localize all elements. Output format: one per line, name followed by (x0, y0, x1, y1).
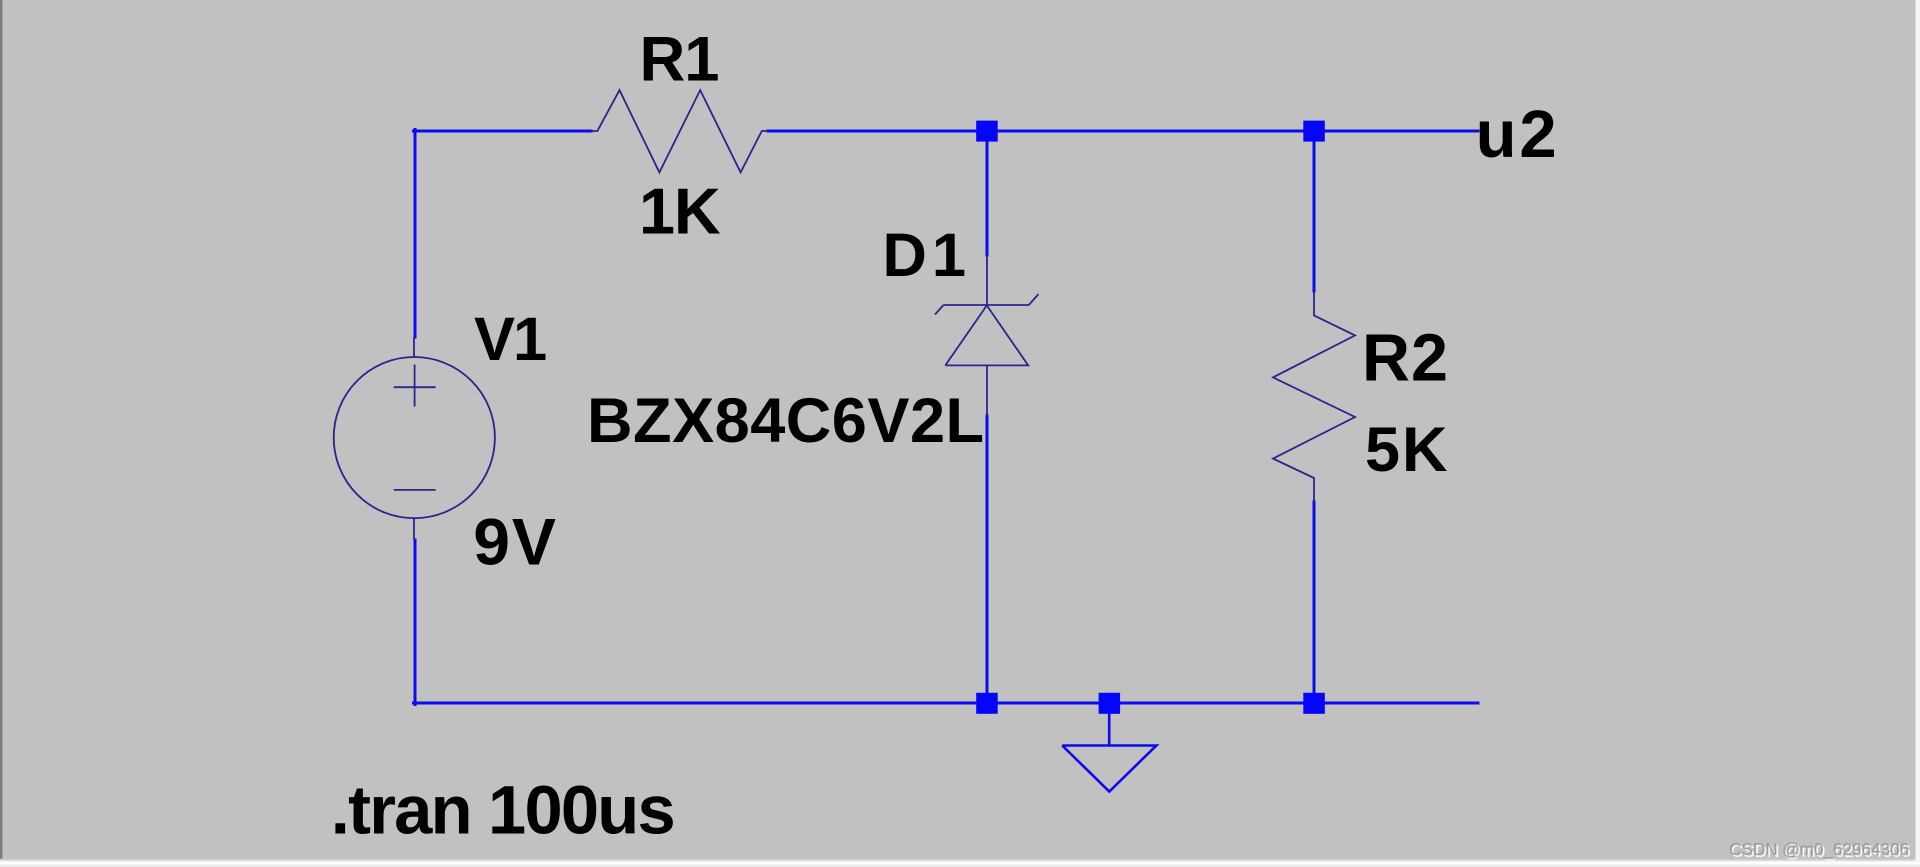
window left edge (0, 0, 3, 861)
wire D1 bottom vertical (986, 416, 989, 703)
window bottom edge shade (0, 859, 1920, 861)
watermark CSDN (1729, 840, 1911, 861)
ground (1062, 703, 1156, 792)
wire R2 top vertical (1313, 131, 1316, 291)
resistor R2 (1273, 291, 1355, 502)
svg-text:5K: 5K (1365, 415, 1450, 485)
svg-text:u2: u2 (1476, 97, 1560, 172)
diode D1 (zener BZX84C6V2L) (935, 255, 1039, 416)
node junction at ground (1099, 693, 1121, 714)
svg-text:1K: 1K (639, 174, 721, 247)
svg-text:V1: V1 (474, 305, 546, 374)
svg-text:R2: R2 (1362, 322, 1449, 396)
svg-text:R1: R1 (640, 25, 719, 95)
svg-text:.tran 100us: .tran 100us (331, 771, 674, 848)
wire left vertical lower (V1 minus pin down to bottom rail) (414, 540, 417, 705)
window right white edge (1916, 0, 1920, 861)
node junction at R1/D1 top (976, 121, 998, 142)
wire top-right horizontal (R1 right to u2 label end) (768, 130, 1478, 133)
wire top-left horizontal (V1 top to R1 left) (414, 130, 592, 133)
svg-text:BZX84C6V2L: BZX84C6V2L (587, 386, 985, 456)
wire left vertical (top corner down to V1 plus pin) (414, 130, 417, 338)
node junction at R2 bottom (1303, 693, 1325, 714)
voltage source V1 (334, 337, 495, 540)
window bottom white strip (0, 862, 1920, 865)
svg-text:D1: D1 (883, 221, 971, 290)
wire D1 top vertical (986, 131, 989, 255)
wire R2 bottom vertical (1313, 502, 1316, 703)
wire bottom rail (414, 702, 1479, 705)
window bottom light strip (0, 865, 1920, 867)
svg-text:CSDN @m0_62964306: CSDN @m0_62964306 (1729, 840, 1909, 859)
resistor R1 (591, 90, 768, 172)
svg-text:9V: 9V (473, 506, 557, 580)
node junction at R2 top / u2 (1303, 121, 1325, 142)
node junction at D1 bottom (976, 693, 998, 714)
